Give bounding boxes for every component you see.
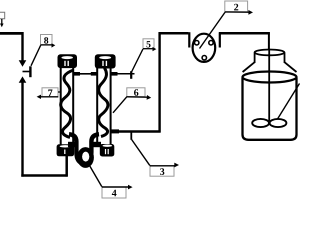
- label box 4: [102, 185, 133, 198]
- wire: feed pipe top-left: [0, 32, 23, 35]
- wire: riser pipe to top: [158, 32, 160, 132]
- valve: [19, 60, 31, 83]
- column I body walls: [61, 66, 73, 146]
- column I coil: [61, 70, 74, 138]
- label box 5: [143, 39, 156, 52]
- pointer line port to box 5: [132, 49, 144, 73]
- bottle (stirred reservoir): [243, 50, 297, 140]
- label box 7 with left arrow: [37, 88, 60, 99]
- pointer line tick to box 3: [132, 140, 151, 167]
- pointer line bulb to box 4: [90, 166, 103, 188]
- U-tube trap between columns: [68, 134, 101, 168]
- feed arrow from box 1: [0, 19, 4, 27]
- wire: column II right top port to open tick (item 5 port): [111, 71, 135, 79]
- stirrer blades: [252, 119, 286, 127]
- column I top cap: [58, 54, 78, 68]
- wire: pipe below valve down-left loop: [21, 82, 23, 177]
- label box 6 with pointer to column II: [127, 88, 151, 100]
- column II top cap: [95, 54, 116, 68]
- wire: column II right bottom port and pipe right: [111, 129, 161, 133]
- label box 2: [225, 1, 253, 15]
- pointer line box 6 to column II wall: [113, 97, 127, 113]
- pointer line stirrer to edge: [278, 84, 300, 120]
- column II coil: [99, 68, 108, 137]
- column I bottom cap: [57, 144, 75, 156]
- label box 1 (partially cut at left edge): [0, 12, 5, 18]
- wire: pump to bottle pipe: [219, 32, 270, 35]
- label box 8: [41, 35, 56, 48]
- wire: vertical pipe to valve: [21, 32, 23, 61]
- wire: top connector between columns with port nubs: [74, 73, 97, 75]
- stirrer shaft: [268, 50, 270, 121]
- column II body walls: [97, 66, 110, 146]
- label box 3: [150, 163, 179, 177]
- trap bulb: [77, 147, 94, 168]
- pointer line pump to box 2: [200, 12, 226, 49]
- node: tick below pipe (item 3 take-off): [130, 132, 132, 140]
- wire: top pipe to pump: [159, 32, 189, 35]
- pump (peristaltic): [189, 32, 220, 62]
- pointer line valve to box 8: [31, 45, 41, 66]
- column II bottom cap: [100, 144, 115, 157]
